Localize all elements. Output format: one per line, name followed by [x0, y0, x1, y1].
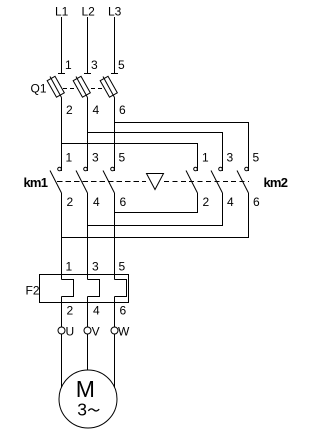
wire km2 pin4 to phase2 [88, 193, 223, 226]
F2 heater element 2 [88, 280, 100, 297]
svg-text:4: 4 [227, 195, 234, 209]
svg-text:3: 3 [91, 58, 98, 72]
svg-text:V: V [92, 325, 100, 339]
wire Q1 pin6 to km1 pin5 [114, 98, 116, 172]
svg-text:6: 6 [119, 103, 126, 117]
mechanical link dashed line km1 [57, 181, 146, 183]
svg-text:5: 5 [253, 151, 260, 165]
svg-text:L2: L2 [82, 5, 96, 19]
svg-text:4: 4 [93, 195, 100, 209]
svg-text:3: 3 [227, 151, 234, 165]
wire km1 pin6 down to F2 [114, 193, 116, 280]
svg-text:2: 2 [67, 304, 74, 318]
terminal V [84, 327, 91, 334]
wire km1 pin4 down to F2 [87, 193, 89, 280]
wire phase3 branch to km2 pin5 [115, 123, 249, 172]
wire L1 to Q1 [61, 17, 63, 74]
svg-text:6: 6 [120, 195, 127, 209]
wire F2 pin2 to motor U [61, 297, 63, 393]
contactor km1 pole 3 [103, 167, 115, 193]
wire L2 to Q1 [87, 17, 89, 74]
wire phase2 branch to km2 pin3 [88, 133, 223, 172]
svg-text:2: 2 [203, 195, 210, 209]
wire L3 to Q1 [114, 17, 116, 74]
svg-text:L1: L1 [55, 5, 69, 19]
svg-text:1: 1 [65, 58, 72, 72]
svg-text:1: 1 [66, 260, 73, 274]
svg-text:km1: km1 [24, 175, 48, 190]
svg-text:U: U [66, 325, 75, 339]
terminal W [111, 327, 118, 334]
svg-text:1: 1 [66, 151, 73, 165]
svg-text:5: 5 [118, 58, 125, 72]
mechanical link dashed line km2 [164, 181, 249, 183]
svg-text:L3: L3 [108, 5, 122, 19]
svg-text:Q1: Q1 [31, 82, 47, 96]
wire Q1 pin4 to km1 pin3 [87, 98, 89, 172]
svg-text:km2: km2 [264, 175, 288, 190]
terminal U [58, 327, 65, 334]
svg-text:F2: F2 [26, 284, 40, 298]
contactor km2 pole 3 [237, 167, 249, 193]
svg-text:6: 6 [120, 304, 127, 318]
svg-text:W: W [118, 325, 130, 339]
svg-text:5: 5 [119, 260, 126, 274]
svg-text:2: 2 [66, 103, 73, 117]
svg-text:5: 5 [119, 151, 126, 165]
contactor km1 pole 2 [76, 167, 88, 193]
svg-text:3: 3 [77, 399, 87, 419]
svg-text:2: 2 [67, 195, 74, 209]
svg-text:M: M [76, 376, 95, 402]
wire Q1 pin2 to km1 pin1 [61, 98, 63, 172]
contactor km1 pole 1 [50, 167, 62, 193]
svg-text:6: 6 [253, 195, 260, 209]
contactor km2 pole 1 [186, 167, 198, 193]
F2 heater element 1 [62, 280, 74, 297]
svg-text:3: 3 [92, 151, 99, 165]
wire km2 pin6 to phase1 [62, 193, 249, 238]
svg-text:4: 4 [93, 304, 100, 318]
wire km2 pin2 to phase3 [115, 193, 198, 213]
wire F2 pin4 to motor V [87, 297, 89, 376]
svg-text:3: 3 [92, 260, 99, 274]
motor M 3~ [59, 370, 117, 428]
svg-text:1: 1 [202, 151, 209, 165]
overload relay F2 body [40, 275, 129, 303]
contactor km2 pole 2 [211, 167, 223, 193]
wire F2 pin6 to motor W [114, 297, 116, 393]
wire phase1 branch to km2 pin1 [62, 144, 198, 172]
svg-text:4: 4 [93, 103, 100, 117]
breaker Q1 [47, 74, 118, 98]
F2 heater element 3 [115, 280, 127, 297]
wire km1 pin2 down to F2 [61, 193, 63, 280]
interlock triangle [147, 174, 164, 190]
